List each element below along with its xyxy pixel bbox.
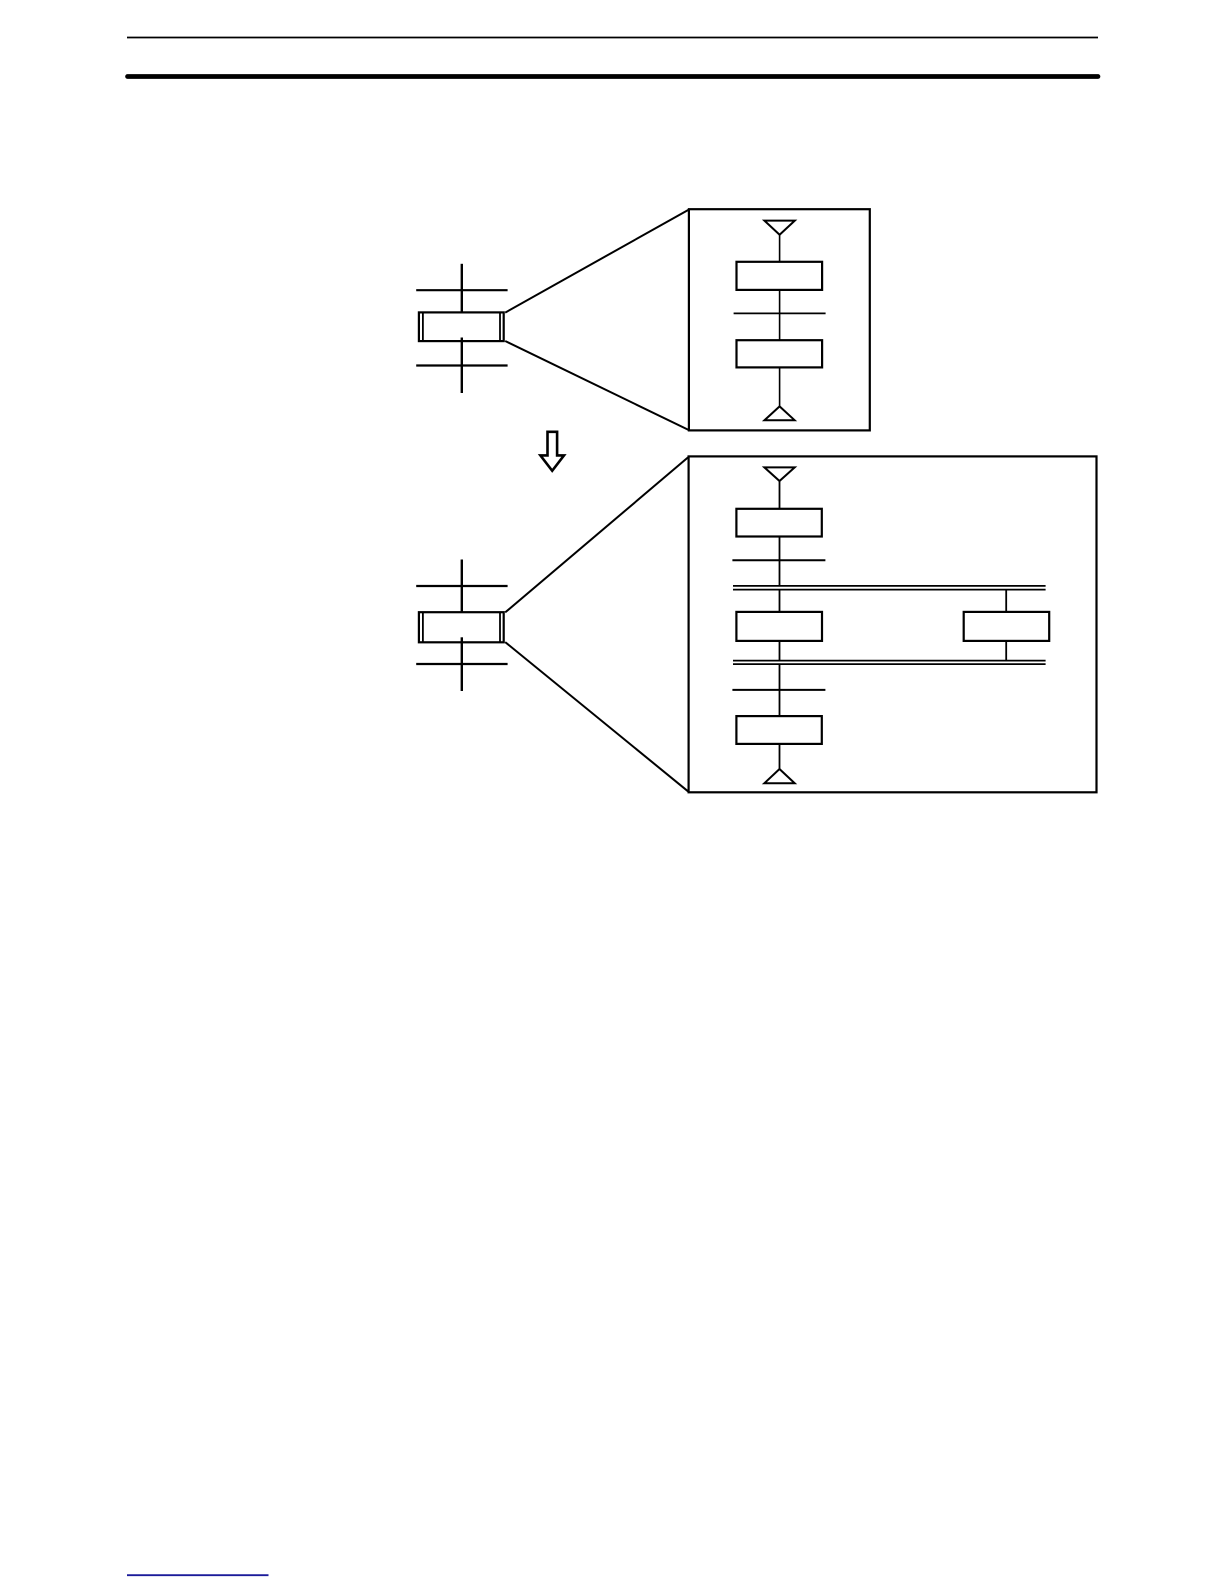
expansion line (upper, bottom) (505, 341, 689, 430)
wire (779, 290, 781, 340)
footer blue rule (127, 1574, 269, 1576)
transition T4 (lower macro, outgoing) (416, 663, 507, 665)
entry triangle (lower SFC) (764, 467, 794, 481)
step box 2 (lower SFC, left branch) (736, 612, 822, 641)
wire: upper macro-step vertical line (below box) (461, 338, 463, 394)
step box 2 (upper SFC) (737, 340, 823, 367)
hollow down arrow (540, 432, 564, 471)
macro step box (upper) (419, 312, 504, 341)
exit triangle (upper SFC) (765, 406, 795, 420)
wire (779, 537, 781, 586)
header thick rule (128, 74, 1099, 79)
exit triangle (lower SFC) (764, 769, 794, 783)
transition (lower SFC, second) (732, 689, 825, 691)
wire: lower macro-step vertical line (below box) (461, 637, 463, 691)
wire (779, 481, 781, 509)
step box 4 (lower SFC) (736, 716, 821, 744)
header thin rule (127, 37, 1098, 39)
wire (779, 367, 781, 406)
transition (lower SFC, first) (732, 559, 825, 561)
wire: lower macro-step vertical line (above box) (461, 560, 463, 613)
step box 1 (lower SFC) (736, 509, 821, 537)
wire right branch (1005, 590, 1007, 612)
parallel branch end double line (733, 661, 1046, 665)
entry triangle (upper SFC) (764, 221, 794, 235)
wire (779, 664, 781, 716)
transition (upper SFC) (734, 312, 826, 314)
transition T3 (lower macro, incoming) (416, 585, 507, 587)
transition T1 (upper macro, incoming) (416, 289, 507, 291)
wire left branch (779, 590, 781, 612)
wire (779, 235, 781, 262)
parallel branch start double line (733, 586, 1046, 590)
expansion rectangle (upper) (689, 209, 870, 430)
expansion line (lower, top) (505, 456, 689, 612)
macro step box (lower) (419, 612, 504, 642)
wire right branch (1005, 641, 1007, 661)
wire (779, 744, 781, 769)
step box 3 (lower SFC, right branch) (964, 612, 1049, 641)
expansion line (lower, bottom) (505, 642, 689, 792)
transition T2 (upper macro, outgoing) (416, 364, 507, 366)
expansion line (upper, top) (505, 209, 689, 312)
wire: upper macro-step vertical line (above box) (461, 264, 463, 313)
wire left branch (779, 641, 781, 661)
expansion rectangle (lower) (689, 456, 1097, 792)
step box 1 (upper SFC) (737, 262, 823, 290)
